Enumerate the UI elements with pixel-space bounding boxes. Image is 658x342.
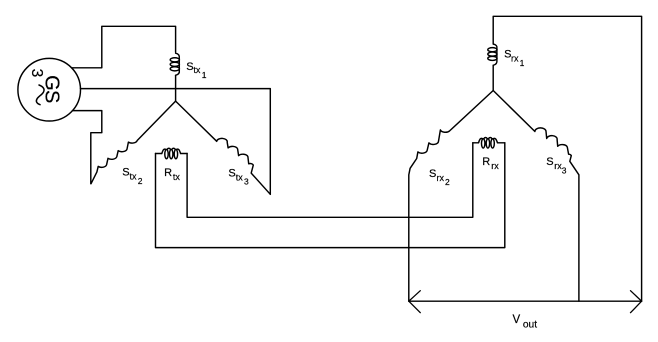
svg-text:1: 1 [202,70,207,80]
svg-text:tx: tx [193,65,201,75]
svg-text:S: S [429,168,436,180]
svg-text:3: 3 [244,177,249,187]
svg-text:R: R [482,156,490,168]
svg-text:V: V [513,314,521,326]
svg-text:tx: tx [130,171,138,181]
svg-text:3: 3 [28,69,45,78]
svg-text:out: out [523,320,537,331]
svg-text:1: 1 [520,58,525,68]
svg-text:S: S [228,167,235,179]
svg-text:tx: tx [173,172,181,182]
svg-text:rx: rx [437,173,445,183]
svg-text:3: 3 [562,165,567,175]
svg-text:R: R [164,167,172,179]
svg-text:2: 2 [445,177,450,187]
svg-text:GS: GS [41,75,63,103]
svg-text:rx: rx [511,53,519,63]
svg-text:2: 2 [138,176,143,186]
svg-text:tx: tx [236,173,244,183]
svg-text:S: S [546,156,553,168]
svg-text:rx: rx [491,161,499,171]
